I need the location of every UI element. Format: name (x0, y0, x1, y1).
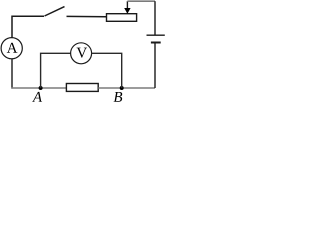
battery negative plate (short) (151, 42, 161, 44)
wire: node B to bottom-right corner (122, 87, 155, 89)
resistor (between A and B) (66, 84, 98, 92)
rheostat wiper arrow (124, 1, 130, 14)
wire: node A up and right to voltmeter (41, 53, 71, 88)
label B (114, 92, 123, 102)
label A (32, 92, 42, 102)
wire: top-left horizontal from corner to switch (12, 16, 44, 37)
wire: arrow top to top-right corner (gray) (127, 0, 155, 2)
wire: switch to rheostat (67, 15, 107, 17)
node A (junction dot) (39, 86, 43, 90)
wire: right vertical down to battery (154, 1, 156, 34)
wire: battery bottom to bottom-right corner (154, 44, 156, 89)
node B (junction dot) (120, 86, 124, 90)
ammeter A (1, 38, 22, 59)
wire: ammeter bottom down to bottom-left corner (11, 58, 13, 88)
wire: voltmeter right to node B (92, 53, 122, 88)
battery positive plate (long) (147, 34, 165, 36)
wire: bottom gray wire corner to node A to resistor (11, 87, 66, 89)
rheostat body (107, 14, 137, 22)
switch (open blade) (45, 7, 65, 16)
voltmeter V (71, 43, 92, 64)
wire: resistor to node B (98, 87, 122, 89)
